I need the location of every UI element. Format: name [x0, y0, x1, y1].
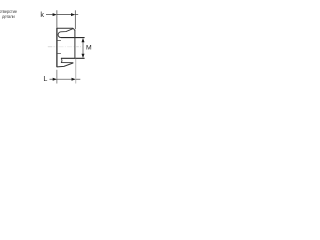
centerline right segment [76, 46, 81, 48]
bore line bottom (with M extension) [61, 57, 85, 59]
dimension M down arrowhead [82, 54, 85, 58]
dimension L leader + arrow [50, 78, 56, 80]
end chamfer top right [73, 28, 75, 30]
prong top inner edge [61, 29, 73, 32]
dimension M up arrowhead [82, 38, 85, 42]
prong bottom outer edge (part bottom) [57, 63, 73, 67]
dimension k leader + arrow [46, 14, 55, 16]
part flange face (left vertical) [56, 28, 58, 67]
dimension M arrow line [82, 40, 84, 57]
svg-text:M: M [86, 45, 92, 52]
svg-text:k: k [40, 10, 44, 19]
extension line L left [56, 70, 58, 84]
end face vertical [74, 30, 76, 59]
dimension L overshoot stub [76, 78, 81, 80]
extension line k left [56, 10, 58, 28]
slot arc top [58, 32, 61, 38]
svg-text:детали: детали [2, 14, 15, 19]
dimension k line [57, 14, 73, 16]
thread tick bottom [57, 53, 61, 55]
centerline [48, 46, 56, 48]
dimension k overshoot stub [75, 14, 78, 16]
extension line k right [74, 10, 76, 29]
dimension L line [57, 78, 74, 80]
prong bottom inner edge [61, 62, 73, 64]
thread tick top [57, 40, 61, 42]
extension line L right [75, 59, 77, 84]
svg-text:L: L [43, 74, 47, 83]
part top edge (prong top outer) [57, 27, 73, 29]
bore line top (with M extension) [61, 37, 85, 39]
slot arc bottom [60, 58, 63, 62]
